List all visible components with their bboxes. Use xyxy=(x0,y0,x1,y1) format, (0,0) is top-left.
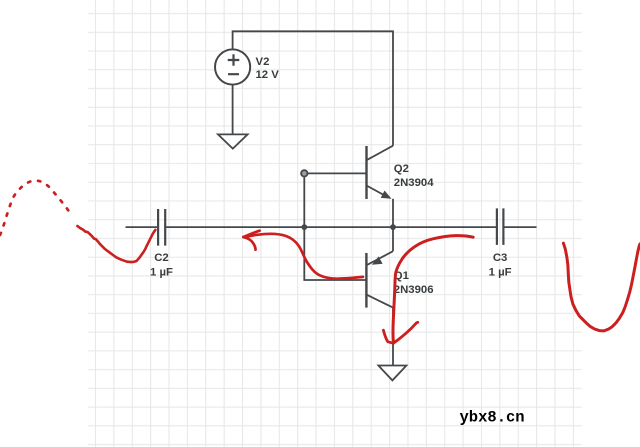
svg-text:V2: V2 xyxy=(256,56,270,68)
svg-text:2N3904: 2N3904 xyxy=(394,177,434,189)
svg-text:Q2: Q2 xyxy=(394,163,409,175)
svg-text:C2: C2 xyxy=(154,252,169,264)
svg-text:2N3906: 2N3906 xyxy=(394,284,434,296)
svg-text:1 µF: 1 µF xyxy=(489,266,512,278)
svg-text:C3: C3 xyxy=(493,252,508,264)
svg-text:ybx8.cn: ybx8.cn xyxy=(460,408,525,426)
svg-text:12 V: 12 V xyxy=(256,69,280,81)
svg-text:1 µF: 1 µF xyxy=(150,266,173,278)
